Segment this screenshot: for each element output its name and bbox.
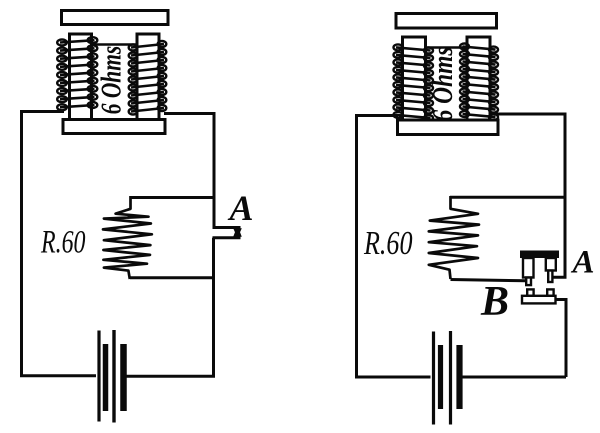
contact A points (left circuit)	[234, 229, 241, 233]
svg-text:A: A	[570, 245, 594, 281]
left electromagnet: right coil winding	[129, 41, 167, 115]
wire: resistor bottom branch	[130, 276, 214, 279]
left electromagnet: left coil core	[70, 34, 92, 120]
right electromagnet: left coil winding	[394, 44, 434, 121]
wire: resistor top branch (right circuit)	[450, 196, 565, 199]
wire: right loop top-left + left side + bottom-left segment	[357, 116, 431, 378]
battery (right circuit): short thick plate 2	[438, 345, 443, 409]
battery (left circuit): long thin plate 3	[112, 330, 115, 423]
battery (left circuit): short thick plate 2	[103, 344, 109, 411]
armature bar above left electromagnet	[62, 11, 169, 25]
wire: right loop top-right + right side upper (to contact post)	[494, 114, 565, 277]
armature bar B with two contact bumps	[522, 289, 556, 303]
left electromagnet: right coil core	[137, 34, 159, 120]
wire: left loop top-left + left side + bottom-left segment	[22, 112, 97, 376]
battery (right circuit): short thick plate 4	[456, 345, 462, 409]
svg-text:6 Ohms: 6 Ohms	[97, 46, 128, 115]
contact screw post right	[546, 258, 556, 282]
resistor R.60 zigzag (right circuit)	[429, 196, 479, 279]
right electromagnet: right coil core	[467, 37, 490, 121]
battery (right circuit): long thin plate 3	[449, 331, 452, 425]
svg-text:R.60: R.60	[363, 225, 412, 262]
left electromagnet: bobbin top line	[92, 43, 138, 46]
right electromagnet: left coil core	[403, 37, 426, 121]
svg-text:B: B	[480, 279, 509, 325]
resistor R.60 zigzag (left circuit)	[103, 196, 152, 279]
battery (left circuit): short thick plate 4	[120, 344, 127, 411]
left electromagnet: left coil winding	[57, 37, 97, 110]
svg-text:A: A	[227, 188, 253, 228]
right electromagnet: bobbin top line	[426, 46, 468, 49]
right electromagnet: base bar	[398, 120, 499, 135]
battery (left circuit): long thin plate 1	[97, 331, 100, 422]
wire: left loop top-right + right side upper (to contact A)	[164, 114, 241, 228]
left electromagnet: base bar	[63, 120, 165, 134]
contact support bar (right circuit, filled black)	[520, 251, 559, 259]
svg-text:R.60: R.60	[40, 225, 86, 261]
contact screw post left	[523, 258, 534, 285]
right electromagnet: right coil winding	[460, 44, 498, 121]
wire: right loop bottom-right + right side lower (from armature B)	[463, 300, 567, 378]
wire: left loop right side lower + bottom-right segment	[126, 238, 241, 376]
wire: resistor top branch	[130, 196, 214, 199]
wire: resistor bottom branch (right circuit)	[451, 280, 527, 281]
svg-text:6 Ohms: 6 Ohms	[428, 46, 459, 121]
battery (right circuit): long thin plate 1	[432, 332, 435, 425]
armature bar above right electromagnet	[396, 14, 497, 29]
